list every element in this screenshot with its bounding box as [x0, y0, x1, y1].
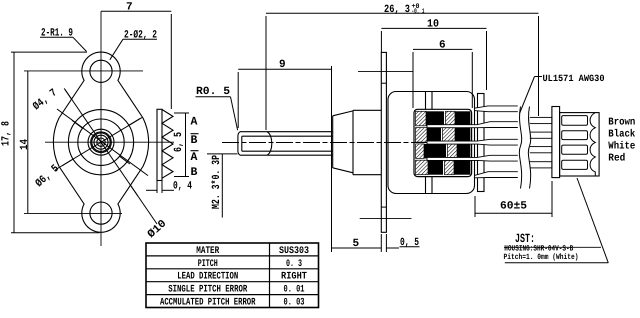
svg-text:SINGLE PITCH ERROR: SINGLE PITCH ERROR	[168, 285, 247, 296]
svg-text:MATER: MATER	[196, 246, 219, 257]
svg-text:Red: Red	[608, 152, 625, 164]
svg-text:60±5: 60±5	[500, 201, 527, 213]
svg-text:RIGHT: RIGHT	[281, 272, 307, 283]
svg-text:B: B	[191, 134, 198, 147]
svg-text:White: White	[608, 141, 635, 153]
svg-text:-0. 1: -0. 1	[412, 8, 425, 16]
svg-text:26, 3: 26, 3	[384, 4, 410, 16]
svg-text:ACCMULATED PITCH ERROR: ACCMULATED PITCH ERROR	[160, 297, 256, 308]
svg-text:6, 5: 6, 5	[173, 132, 185, 152]
svg-text:10: 10	[427, 19, 439, 31]
svg-text:M2. 3*0. 3P: M2. 3*0. 3P	[211, 155, 223, 209]
svg-text:B: B	[191, 166, 198, 179]
svg-text:0. 3: 0. 3	[286, 259, 302, 270]
svg-text:17, 8: 17, 8	[1, 121, 13, 146]
svg-text:7: 7	[126, 2, 133, 14]
svg-text:R0. 5: R0. 5	[196, 86, 230, 98]
svg-text:14: 14	[19, 139, 31, 150]
svg-text:0, 4: 0, 4	[173, 180, 192, 192]
svg-text:SUS303: SUS303	[279, 246, 309, 257]
svg-text:LEAD DIRECTION: LEAD DIRECTION	[177, 272, 238, 283]
svg-text:9: 9	[279, 59, 286, 71]
svg-text:0. 03: 0. 03	[284, 297, 305, 308]
svg-text:A: A	[191, 116, 198, 129]
svg-text:UL1571 AWG30: UL1571 AWG30	[543, 73, 605, 84]
svg-text:6: 6	[439, 40, 446, 52]
svg-text:A: A	[191, 151, 198, 164]
svg-text:Pitch=1. 0mm (White): Pitch=1. 0mm (White)	[504, 253, 579, 262]
svg-text:PITCH: PITCH	[198, 259, 218, 270]
svg-text:0. 01: 0. 01	[284, 285, 305, 296]
svg-text:5: 5	[353, 238, 360, 250]
svg-text:Brown: Brown	[608, 116, 635, 128]
svg-text:Black: Black	[608, 128, 635, 140]
